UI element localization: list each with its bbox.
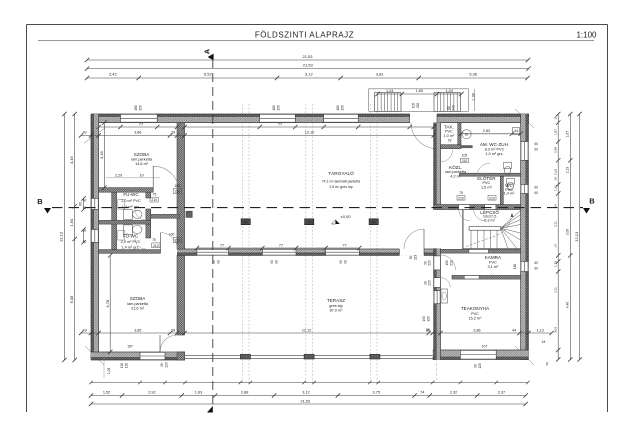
- svg-text:75: 75: [152, 238, 156, 242]
- svg-text:92: 92: [448, 139, 452, 143]
- svg-text:2,11: 2,11: [553, 221, 557, 227]
- svg-text:A: A: [203, 49, 212, 54]
- svg-text:14,6 m²: 14,6 m²: [135, 162, 149, 166]
- svg-text:74: 74: [420, 390, 424, 394]
- svg-text:1,60: 1,60: [416, 89, 423, 93]
- svg-text:FÜ-WC: FÜ-WC: [123, 232, 139, 238]
- svg-text:3,81: 3,81: [376, 72, 385, 77]
- svg-text:21,6 m²: 21,6 m²: [131, 307, 145, 311]
- svg-text:3,00: 3,00: [566, 229, 570, 236]
- svg-text:3,75: 3,75: [373, 390, 380, 394]
- svg-text:1,0 m² grz.: 1,0 m² grz.: [485, 152, 503, 156]
- svg-text:240: 240: [452, 105, 456, 111]
- svg-text:ELŐTÉR: ELŐTÉR: [477, 175, 496, 181]
- svg-text:90: 90: [270, 260, 274, 264]
- svg-text:190: 190: [120, 363, 124, 369]
- svg-text:3,1 m²: 3,1 m²: [488, 265, 499, 269]
- svg-text:5,36: 5,36: [469, 72, 478, 77]
- svg-text:180: 180: [336, 105, 340, 111]
- svg-text:2,88: 2,88: [241, 390, 248, 394]
- svg-text:223: 223: [428, 280, 432, 286]
- svg-text:180: 180: [272, 105, 276, 111]
- svg-text:60: 60: [447, 106, 451, 110]
- svg-text:39: 39: [171, 328, 175, 332]
- svg-text:90: 90: [339, 260, 343, 264]
- svg-text:150: 150: [139, 105, 143, 111]
- svg-text:90: 90: [217, 260, 221, 264]
- svg-text:8,3 m² PVC: 8,3 m² PVC: [485, 148, 505, 152]
- svg-text:44: 44: [514, 129, 518, 133]
- svg-text:77: 77: [279, 243, 283, 247]
- svg-text:49: 49: [545, 362, 549, 366]
- svg-text:39: 39: [426, 328, 430, 332]
- svg-text:74,1 m² laminált parketta: 74,1 m² laminált parketta: [322, 179, 361, 183]
- svg-text:1,87: 1,87: [553, 129, 557, 135]
- svg-text:49: 49: [83, 328, 87, 332]
- svg-text:180: 180: [134, 105, 138, 111]
- svg-text:150: 150: [277, 105, 281, 111]
- svg-text:107: 107: [482, 344, 488, 348]
- svg-text:160: 160: [513, 264, 517, 270]
- svg-text:210: 210: [153, 244, 159, 248]
- svg-text:60: 60: [535, 186, 539, 190]
- svg-text:KAMRA: KAMRA: [485, 255, 502, 260]
- svg-text:14: 14: [553, 244, 557, 248]
- svg-text:210: 210: [489, 196, 495, 200]
- svg-text:120: 120: [478, 363, 482, 369]
- svg-text:lam.parketta: lam.parketta: [127, 302, 149, 306]
- svg-text:21,53: 21,53: [302, 54, 313, 59]
- svg-text:90: 90: [344, 260, 348, 264]
- svg-text:2,29: 2,29: [115, 173, 122, 177]
- svg-text:2,92: 2,92: [148, 390, 155, 394]
- svg-text:19: 19: [553, 177, 557, 181]
- svg-text:PVC: PVC: [471, 312, 479, 316]
- svg-text:60: 60: [535, 142, 539, 146]
- svg-text:100: 100: [445, 260, 449, 266]
- svg-text:2,42: 2,42: [109, 72, 118, 77]
- svg-text:15,2 m²: 15,2 m²: [469, 317, 483, 321]
- svg-text:FÖLDSZINTI ALAPRAJZ: FÖLDSZINTI ALAPRAJZ: [255, 31, 354, 40]
- svg-text:60: 60: [535, 261, 539, 265]
- svg-text:6,52: 6,52: [204, 72, 213, 77]
- svg-text:TAK.: TAK.: [444, 124, 454, 129]
- svg-text:60: 60: [535, 191, 539, 195]
- svg-text:1,24: 1,24: [446, 89, 453, 93]
- svg-text:lam.parketta: lam.parketta: [131, 158, 153, 162]
- svg-text:TERASZ: TERASZ: [327, 298, 345, 303]
- svg-text:4,78: 4,78: [105, 299, 110, 308]
- svg-text:210: 210: [151, 198, 157, 202]
- svg-text:3,85: 3,85: [134, 328, 141, 332]
- svg-text:1,0 m²: 1,0 m²: [444, 134, 455, 138]
- svg-text:157: 157: [127, 344, 133, 348]
- svg-text:49: 49: [83, 131, 87, 135]
- svg-text:90: 90: [409, 256, 413, 260]
- svg-text:210: 210: [175, 190, 181, 194]
- svg-text:44: 44: [512, 328, 516, 332]
- svg-text:10: 10: [140, 173, 144, 177]
- svg-text:105: 105: [174, 184, 180, 188]
- svg-text:60: 60: [535, 267, 539, 271]
- svg-text:PVC: PVC: [489, 260, 497, 264]
- svg-text:2,0 m² PVC: 2,0 m² PVC: [121, 199, 141, 203]
- svg-text:44: 44: [542, 340, 546, 344]
- svg-text:1,63: 1,63: [195, 390, 202, 394]
- svg-text:210: 210: [416, 103, 420, 109]
- svg-text:1,08: 1,08: [107, 368, 111, 375]
- svg-text:77: 77: [139, 123, 143, 127]
- svg-text:21,53: 21,53: [303, 63, 314, 68]
- svg-text:SZOBA: SZOBA: [130, 296, 147, 301]
- svg-text:2,32: 2,32: [450, 390, 457, 394]
- svg-text:2,19: 2,19: [566, 167, 570, 174]
- svg-text:AM. WC-ZUH.: AM. WC-ZUH.: [480, 142, 509, 147]
- svg-text:210: 210: [458, 196, 464, 200]
- svg-text:90: 90: [212, 260, 216, 264]
- svg-text:2,11: 2,11: [553, 287, 557, 293]
- svg-text:190: 190: [422, 316, 426, 322]
- svg-text:90: 90: [160, 363, 164, 367]
- svg-text:SZOBA: SZOBA: [134, 152, 151, 157]
- svg-text:90: 90: [275, 260, 279, 264]
- svg-text:1,24: 1,24: [386, 89, 393, 93]
- svg-text:2,38: 2,38: [553, 147, 557, 153]
- svg-text:4,2 m²: 4,2 m²: [450, 174, 461, 178]
- svg-text:1,4 m²: 1,4 m²: [504, 192, 515, 196]
- svg-text:210: 210: [450, 260, 454, 266]
- svg-text:60: 60: [79, 202, 83, 206]
- svg-text:1,5 m²: 1,5 m²: [481, 185, 492, 189]
- svg-text:KÖZL.: KÖZL.: [449, 164, 462, 170]
- svg-text:3,12: 3,12: [305, 72, 314, 77]
- svg-text:1,52: 1,52: [103, 390, 110, 394]
- svg-text:2,37: 2,37: [498, 390, 505, 394]
- svg-text:1,4 m² grz.: 1,4 m² grz.: [121, 246, 139, 250]
- svg-text:3,09: 3,09: [553, 327, 557, 333]
- svg-text:120: 120: [125, 363, 129, 369]
- svg-text:12,10: 12,10: [305, 131, 315, 135]
- svg-text:2,83: 2,83: [483, 129, 490, 133]
- svg-text:1:100: 1:100: [576, 31, 597, 40]
- svg-text:105: 105: [412, 103, 416, 109]
- svg-text:14: 14: [553, 204, 557, 208]
- svg-text:223: 223: [414, 255, 418, 261]
- svg-text:77: 77: [342, 243, 346, 247]
- svg-text:12,12: 12,12: [302, 328, 312, 332]
- svg-text:±0,00: ±0,00: [341, 214, 352, 219]
- svg-text:1,60: 1,60: [69, 218, 74, 227]
- svg-text:1,13: 1,13: [537, 328, 544, 332]
- svg-text:12,13: 12,13: [574, 231, 579, 242]
- svg-text:77: 77: [220, 243, 224, 247]
- svg-text:1,41: 1,41: [553, 185, 557, 191]
- svg-text:39: 39: [171, 131, 175, 135]
- svg-text:6,3 m²: 6,3 m²: [484, 219, 495, 223]
- svg-text:75: 75: [459, 191, 463, 195]
- svg-text:2,0 m² PVC: 2,0 m² PVC: [121, 240, 141, 244]
- svg-text:TÁRGYALÓ: TÁRGYALÓ: [328, 170, 354, 177]
- svg-text:223: 223: [428, 260, 432, 266]
- svg-text:150: 150: [341, 105, 345, 111]
- svg-text:105: 105: [462, 154, 468, 158]
- svg-text:3,18: 3,18: [99, 150, 104, 159]
- svg-text:120: 120: [427, 316, 431, 322]
- svg-text:210: 210: [462, 159, 468, 163]
- svg-text:B: B: [37, 197, 43, 206]
- svg-text:4,46: 4,46: [566, 302, 570, 309]
- svg-text:TEAKONYHA: TEAKONYHA: [461, 306, 490, 311]
- svg-text:21,53: 21,53: [301, 399, 311, 403]
- svg-text:1,38: 1,38: [472, 93, 476, 100]
- svg-text:FÜ-WC: FÜ-WC: [123, 191, 139, 197]
- svg-text:100: 100: [169, 232, 175, 236]
- svg-text:1,79: 1,79: [553, 261, 557, 267]
- svg-text:B: B: [589, 197, 595, 206]
- svg-text:12,13: 12,13: [59, 231, 64, 242]
- svg-text:3,12: 3,12: [302, 390, 309, 394]
- svg-text:77: 77: [278, 123, 282, 127]
- svg-text:3,86: 3,86: [134, 131, 141, 135]
- svg-text:90: 90: [474, 364, 478, 368]
- svg-text:1,67: 1,67: [566, 131, 570, 138]
- svg-text:60: 60: [535, 148, 539, 152]
- svg-text:223: 223: [165, 362, 169, 368]
- svg-text:210: 210: [175, 239, 181, 243]
- svg-text:2,5 m² gres lap: 2,5 m² gres lap: [329, 185, 352, 189]
- svg-text:3,86: 3,86: [473, 328, 480, 332]
- svg-text:75: 75: [153, 192, 157, 196]
- svg-text:4,46: 4,46: [69, 155, 74, 164]
- svg-text:30: 30: [465, 133, 469, 137]
- svg-text:1,4 m² grz.: 1,4 m² grz.: [122, 205, 140, 209]
- svg-text:87,0 m²: 87,0 m²: [330, 309, 344, 313]
- svg-text:18: 18: [553, 116, 557, 120]
- svg-text:6,08: 6,08: [69, 295, 74, 304]
- svg-text:2,19: 2,19: [553, 169, 557, 175]
- svg-text:gres lap: gres lap: [329, 304, 343, 308]
